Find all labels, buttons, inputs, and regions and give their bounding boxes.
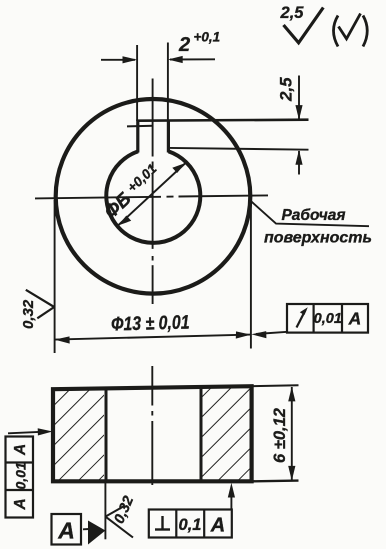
svg-text:6 ±0,12: 6 ±0,12 (271, 408, 289, 463)
roughness note (√) top right (334, 14, 368, 47)
keyway slot (127, 120, 168, 153)
svg-text:+0,1: +0,1 (194, 30, 221, 45)
svg-text:A: A (12, 444, 29, 456)
svg-text:A: A (210, 515, 225, 537)
leader to perpendicularity frame (228, 483, 235, 510)
svg-text:поверхность: поверхность (264, 230, 372, 247)
bore diameter arrow (118, 163, 186, 226)
svg-text:A: A (348, 309, 362, 329)
label Фб +0,01 (101, 161, 160, 223)
radial runout frame ↗ 0,01 A (287, 304, 368, 333)
extension lines Ф13 (55, 200, 251, 353)
hatching left block (55, 389, 104, 480)
svg-text:0,01: 0,01 (13, 462, 29, 489)
outer circle Ф13 (56, 99, 251, 294)
dimension 6 ±0,12 (271, 387, 295, 481)
hatching right block (203, 388, 251, 480)
extension lines keyway width (137, 43, 168, 122)
horizontal centerline top view (35, 195, 268, 198)
svg-text:A: A (12, 498, 29, 510)
svg-text:2,5: 2,5 (277, 77, 296, 102)
svg-text:Рабочая: Рабочая (281, 207, 345, 224)
svg-text:2: 2 (178, 34, 190, 56)
dimension 2,5 keyway depth (277, 76, 303, 175)
svg-text:0,1: 0,1 (179, 516, 202, 534)
svg-text:0,32: 0,32 (20, 299, 37, 329)
label Рабочая поверхность (264, 207, 372, 247)
vertical centerline bottom view (151, 366, 153, 485)
bottom view rectangle (53, 386, 252, 481)
leader to runout frame (251, 331, 287, 338)
leader from left frame (8, 428, 53, 435)
svg-text:A: A (57, 518, 75, 544)
face runout frame left (rotated) (6, 437, 34, 518)
svg-text:0,01: 0,01 (314, 311, 342, 327)
datum A box (52, 514, 82, 545)
bore circle Фб with keyway opening (106, 151, 200, 242)
extension lines 6±0,12 (252, 385, 299, 481)
dimension Ф13 ± 0,01 (55, 311, 251, 343)
roughness 0,32 bottom (105, 494, 137, 538)
keyway depth extension lines (137, 120, 309, 150)
vertical centerline top view (152, 79, 154, 305)
perpendicularity frame ⊥ 0,1 A (149, 510, 232, 538)
extension line below rect (104, 482, 106, 539)
roughness note 2,5 top right (280, 4, 324, 43)
svg-text:Ф13 ± 0,01: Ф13 ± 0,01 (111, 311, 190, 335)
leader рабочая поверхность (251, 201, 369, 226)
roughness 0,32 left (20, 290, 54, 329)
dimension 2+0,1 (101, 30, 220, 64)
datum triangle (83, 521, 105, 545)
svg-text:2,5: 2,5 (280, 4, 305, 22)
bore walls section view (106, 387, 201, 481)
